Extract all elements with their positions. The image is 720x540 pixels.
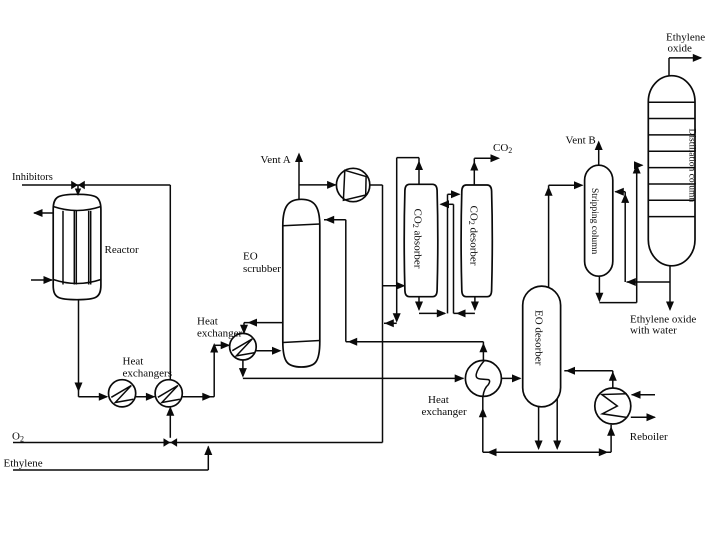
svg-text:scrubber: scrubber: [243, 263, 281, 275]
EO scrubber vessel: [283, 199, 320, 367]
label Heat exchanger (second): [422, 394, 468, 418]
svg-text:EO desorber: EO desorber: [533, 310, 545, 366]
heat exchanger 3: [230, 333, 257, 360]
wire EO desorber overhead to stripping column: [545, 181, 584, 287]
reactor vessel: [53, 194, 101, 299]
wire scrubber bottoms to HX3 top: [240, 319, 283, 335]
heat exchanger 2: [155, 380, 182, 407]
scrubber vent line Vent A: [295, 153, 303, 200]
wire stripping bottoms to distillation column: [595, 161, 643, 302]
wire distillation bottoms product: [666, 266, 674, 311]
svg-text:Heat: Heat: [428, 394, 449, 406]
wire CO2 absorber overhead recycle: [393, 158, 423, 323]
wire bottoms up into HX4: [479, 396, 487, 452]
wire EO desorber bottoms right: [553, 399, 561, 450]
svg-text:with water: with water: [630, 325, 677, 337]
svg-text:Vent A: Vent A: [261, 154, 291, 166]
svg-text:Reactor: Reactor: [105, 244, 140, 256]
compressor: [336, 168, 369, 201]
bottoms header to HX4 and reboiler: [483, 425, 615, 457]
wire lean solution desorber bottom to absorber top: [440, 200, 479, 317]
svg-text:Distillation column: Distillation column: [687, 129, 697, 203]
label Ethylene oxide with water: [630, 314, 696, 337]
wire compressor discharge down to feed junction: [370, 185, 383, 443]
svg-text:Vent B: Vent B: [566, 135, 596, 147]
svg-text:Ethylene: Ethylene: [4, 458, 43, 470]
wire distillation overhead product: [669, 54, 702, 76]
wire reactor outlet to heat exchanger 1: [75, 300, 109, 401]
wire rich solution absorber bottom to desorber top: [415, 190, 461, 317]
inhibitors feed line: [22, 184, 170, 186]
svg-text:Heat: Heat: [197, 316, 218, 328]
svg-text:CO2 absorber: CO2 absorber: [411, 209, 424, 269]
ethylene feed line: [13, 446, 212, 471]
wire EO desorber bottoms left: [535, 406, 543, 450]
label EO scrubber: [243, 251, 281, 276]
wire HX3 bottom to heat exchanger 4: [239, 360, 464, 382]
CO2 desorber vessel: [461, 185, 492, 297]
heat exchanger 1: [109, 380, 136, 407]
wire HX1 to HX2: [136, 393, 156, 401]
wire distillation bottoms recycle to stripping column: [614, 188, 670, 286]
svg-text:CO2 desorber: CO2 desorber: [467, 206, 480, 266]
wire CO2 desorber overhead vent: [470, 154, 500, 185]
svg-text:exchangers: exchangers: [123, 368, 172, 380]
reactor top inlet stub: [75, 185, 81, 196]
reactor bottom-left inlet: [31, 276, 53, 284]
svg-text:exchanger: exchanger: [197, 328, 243, 340]
wire utility into reboiler: [631, 391, 655, 399]
svg-text:Stripping column: Stripping column: [589, 188, 599, 254]
label Heat exchangers: [123, 356, 172, 380]
wire HX2 to heat exchanger 3: [182, 341, 230, 401]
valve on O2 line: [164, 438, 178, 447]
svg-text:Inhibitors: Inhibitors: [12, 172, 53, 183]
distillation column vessel: [648, 76, 695, 266]
reactor top-left outlet: [33, 209, 53, 217]
svg-text:oxide: oxide: [668, 43, 693, 55]
stripping column vent Vent B: [595, 141, 603, 166]
wire valve up into HX2 bottom: [166, 406, 174, 438]
wire gas branch into CO2 absorber: [383, 282, 406, 290]
svg-text:exchanger: exchanger: [422, 406, 468, 418]
label Heat exchanger: [197, 316, 243, 340]
wire HX4 to EO desorber inlet: [501, 374, 521, 382]
CO2 absorber vessel: [404, 184, 438, 296]
wire HX2 top up to reactor inlet line: [169, 185, 171, 380]
wire reboiler bottoms out: [631, 413, 656, 421]
stripping column vessel: [585, 165, 613, 276]
svg-text:EO: EO: [243, 251, 258, 263]
svg-text:Heat: Heat: [123, 356, 144, 368]
wire absorber overhead riser: [418, 158, 420, 185]
O2 feed line: [13, 442, 383, 444]
wire reboiler vapor return to EO desorber: [564, 367, 617, 388]
wire HX4 top water recycle to scrubber top: [324, 216, 487, 361]
heat exchanger 4: [465, 360, 501, 396]
wire recycle jog to discharge line: [384, 319, 397, 327]
wire HX3 to scrubber bottom inlet: [256, 347, 281, 355]
EO desorber vessel: [523, 286, 561, 407]
valve on inhibitors line: [71, 181, 85, 190]
wire vent branch to compressor: [299, 181, 337, 189]
svg-text:Reboiler: Reboiler: [630, 431, 668, 443]
label Ethylene oxide (top): [666, 32, 705, 55]
reboiler: [595, 388, 631, 424]
